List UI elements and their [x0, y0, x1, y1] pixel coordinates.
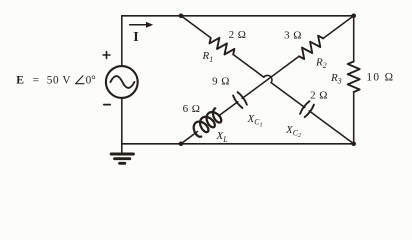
wire diag1 top segment: [181, 16, 211, 38]
svg-text:0°: 0°: [86, 75, 96, 87]
ground: [111, 152, 133, 163]
svg-text:50 V: 50 V: [47, 75, 72, 87]
svg-text:9 Ω: 9 Ω: [212, 76, 230, 88]
wire right vertical lower: [353, 92, 355, 144]
minus sign: [104, 104, 110, 106]
wire right vertical upper: [353, 16, 355, 62]
svg-text:E: E: [16, 74, 24, 87]
wire diag1 mid segment: [233, 55, 264, 78]
label E = 50 V angle 0deg: [16, 74, 96, 87]
inductor XL coil: [194, 108, 222, 137]
resistor R1: [210, 38, 235, 55]
svg-text:10 Ω: 10 Ω: [366, 72, 394, 84]
wire diag2 from bottom junction: [181, 132, 198, 144]
wire bottom rail: [122, 143, 354, 145]
plus sign: [103, 52, 110, 59]
wire diag2 through crossing: [242, 56, 299, 98]
node top-right corner: [351, 14, 356, 19]
node top junction: [179, 14, 184, 19]
wire hop over crossing: [264, 75, 272, 82]
wire diag2 to top right: [323, 16, 354, 39]
svg-text:2 Ω: 2 Ω: [229, 29, 247, 41]
node bottom junction: [179, 142, 184, 147]
current arrow I: [130, 22, 154, 28]
svg-text:=: =: [33, 75, 39, 87]
resistor R2: [299, 36, 323, 59]
wire top rail: [122, 15, 354, 17]
resistor R3: [348, 62, 360, 93]
voltage source E (AC): [106, 66, 138, 98]
svg-text:6 Ω: 6 Ω: [183, 103, 201, 115]
angle symbol: [76, 76, 84, 84]
node bottom-right corner: [351, 142, 356, 147]
svg-text:3 Ω: 3 Ω: [284, 29, 302, 41]
svg-text:I: I: [133, 30, 138, 45]
capacitor XC1 plates: [233, 92, 247, 108]
capacitor XC2 plates: [300, 101, 314, 117]
wire left vertical upper: [121, 16, 123, 66]
wire left vertical lower: [121, 98, 123, 153]
wire diag1 lower segment: [271, 83, 305, 108]
wire diag2 to XC1: [220, 102, 238, 115]
wire diag1 bottom segment: [309, 111, 354, 144]
svg-text:2 Ω: 2 Ω: [310, 89, 328, 101]
